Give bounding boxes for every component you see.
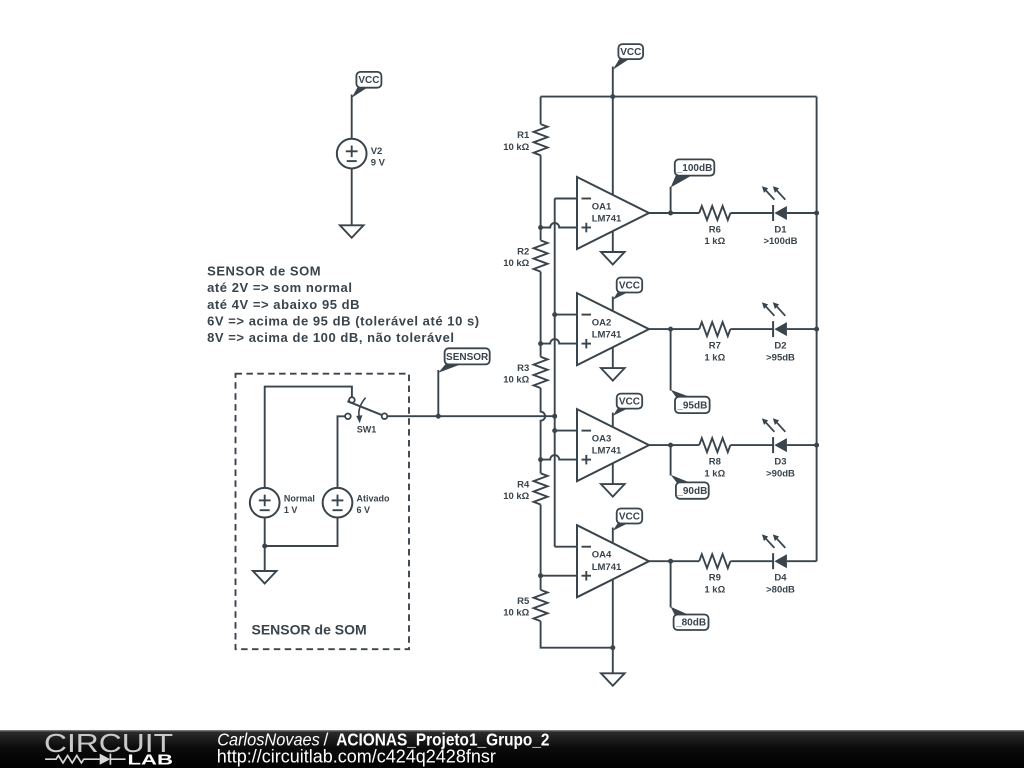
- footer url line: [217, 747, 496, 767]
- svg-text:R1: R1: [517, 130, 530, 141]
- wire D3 to bus: [787, 444, 817, 446]
- svg-text:R8: R8: [709, 457, 721, 468]
- svg-text:>90dB: >90dB: [766, 468, 795, 479]
- svg-text:VCC: VCC: [619, 397, 640, 408]
- svg-text:SENSOR de SOM: SENSOR de SOM: [252, 621, 367, 637]
- svg-text:1 kΩ: 1 kΩ: [704, 468, 725, 479]
- svg-text:10 kΩ: 10 kΩ: [503, 375, 529, 386]
- svg-text:D1: D1: [774, 225, 787, 236]
- LED D3 >90dB: [762, 418, 795, 479]
- svg-text:Ativado: Ativado: [357, 493, 391, 503]
- note text sensor description: [207, 264, 480, 345]
- resistor R8 1 k&#937;: [699, 438, 730, 479]
- wire ladder tap to OA2 non-inverting input: [541, 339, 577, 343]
- svg-text:http://circuitlab.com/c424q242: http://circuitlab.com/c424q2428fnsr: [217, 747, 496, 767]
- wire ladder tap to OA3 non-inverting input: [541, 455, 577, 459]
- junction at sources ground: [262, 544, 267, 549]
- voltage source Ativado 6V: [323, 488, 390, 518]
- junction ladder ground: [610, 645, 615, 650]
- svg-text:1 kΩ: 1 kΩ: [704, 352, 725, 363]
- wire junction to ground: [264, 546, 266, 571]
- ground below OA2: [601, 368, 625, 381]
- svg-text:6 V: 6 V: [357, 505, 371, 515]
- footer bar: [0, 730, 1024, 768]
- switch SW1: [345, 397, 387, 434]
- svg-text:_90dB: _90dB: [676, 486, 707, 497]
- svg-text:>95dB: >95dB: [766, 352, 795, 363]
- wire ladder segment 4: [540, 505, 542, 590]
- resistor R7 1 k&#937;: [699, 322, 730, 363]
- voltage source V2 9V: [337, 139, 386, 169]
- wire sensor line to OA2 inverting input: [555, 314, 577, 316]
- wire Ativado top to switch left throw: [338, 416, 346, 488]
- svg-text:LM741: LM741: [592, 562, 622, 573]
- svg-text:OA1: OA1: [592, 201, 612, 212]
- svg-text:SENSOR: SENSOR: [446, 352, 489, 363]
- svg-text:6V => acima de 95 dB (toleráve: 6V => acima de 95 dB (tolerável até 10 s…: [207, 313, 480, 328]
- svg-text:8V => acima de 100 dB, não tol: 8V => acima de 100 dB, não tolerável: [207, 330, 454, 345]
- power flag VCC at OA3: [613, 394, 642, 416]
- power flag VCC main: [613, 44, 643, 70]
- wire OA4 output: [649, 560, 699, 562]
- wire SENSOR flag to switch wire: [437, 370, 439, 416]
- wire Normal bottom to ground junction: [264, 518, 266, 547]
- wire ladder segment 3: [541, 388, 546, 473]
- svg-text:LM741: LM741: [592, 214, 622, 225]
- svg-text:R4: R4: [517, 479, 530, 490]
- net label _100dB: [671, 159, 715, 187]
- wire VCC rail into OA1: [612, 97, 614, 195]
- resistor R9 1 k&#937;: [699, 554, 730, 595]
- CircuitLab logo text CIRCUIT: [44, 728, 173, 758]
- junction SENSOR flag tap: [436, 414, 441, 419]
- wire R8 to D3: [730, 444, 773, 446]
- svg-text:1 V: 1 V: [284, 505, 298, 515]
- dashed enclosure SENSOR de SOM: [236, 374, 410, 650]
- wire OA2 output: [649, 328, 699, 330]
- junction top rail VCC: [610, 94, 615, 99]
- wire Ativado bottom to ground junction: [265, 518, 338, 547]
- wire V2 to ground: [351, 168, 353, 225]
- LED D2 >95dB: [762, 302, 795, 363]
- net label _80dB: [671, 607, 709, 630]
- wire D1 to bus: [787, 212, 817, 214]
- svg-text:até 2V => som normal: até 2V => som normal: [207, 280, 352, 295]
- wire VCC flag to OA4: [612, 528, 614, 544]
- junction ladder tap row 4: [538, 573, 543, 578]
- svg-text:10 kΩ: 10 kΩ: [503, 258, 529, 269]
- op-amp OA1 LM741: [577, 177, 649, 249]
- wire OA3 to ground: [612, 463, 614, 484]
- junction OA1 output: [668, 211, 673, 216]
- ground below V2: [340, 225, 364, 238]
- svg-text:10 kΩ: 10 kΩ: [503, 491, 529, 502]
- LED D1 >100dB: [762, 186, 798, 247]
- svg-text:>80dB: >80dB: [766, 584, 795, 595]
- svg-text:R6: R6: [709, 225, 721, 236]
- wire OA3 output to _90dB flag: [670, 445, 672, 475]
- wire OA1 output: [649, 212, 699, 214]
- svg-text:1 kΩ: 1 kΩ: [704, 584, 725, 595]
- LED D4 >80dB: [762, 534, 795, 595]
- footer title line: [217, 730, 550, 750]
- wire D4 to bus: [787, 560, 817, 562]
- svg-text:10 kΩ: 10 kΩ: [503, 608, 529, 619]
- wire OA1 to ground: [612, 231, 614, 252]
- svg-text:R5: R5: [517, 596, 530, 607]
- resistor R4 10 k&#937;: [503, 473, 547, 504]
- wire R7 to D2: [730, 328, 773, 330]
- wire ladder segment 1: [540, 155, 542, 240]
- wire OA3 output: [649, 444, 699, 446]
- junction OA4 output: [668, 559, 673, 564]
- ground below OA1: [601, 252, 625, 265]
- ground bottom: [601, 673, 625, 686]
- junction OA3 output: [668, 443, 673, 448]
- wire sensor line to OA1 inverting input: [555, 198, 577, 200]
- wire ladder tap to OA1 non-inverting input: [541, 223, 577, 228]
- voltage source Normal 1V: [250, 488, 315, 518]
- svg-text:R2: R2: [517, 246, 529, 257]
- svg-text:D3: D3: [774, 457, 786, 468]
- svg-text:R3: R3: [517, 363, 529, 374]
- svg-text:_95dB: _95dB: [676, 400, 707, 411]
- svg-text:Normal: Normal: [284, 493, 315, 503]
- svg-text:OA3: OA3: [592, 434, 612, 445]
- op-amp OA4 LM741: [577, 525, 649, 597]
- svg-text:1 kΩ: 1 kΩ: [704, 236, 725, 247]
- resistor R5 10 k&#937;: [503, 590, 547, 621]
- wire sensor distribution line: [554, 199, 556, 547]
- resistor R2 10 k&#937;: [503, 240, 547, 271]
- junction ladder tap row 3: [538, 457, 543, 462]
- power flag VCC at V2: [352, 72, 382, 98]
- svg-text:V2: V2: [371, 146, 383, 157]
- wire switch pole to sensor line: [387, 415, 554, 417]
- wire Normal top to switch upper throw: [265, 387, 352, 488]
- resistor R6 1 k&#937;: [699, 206, 730, 247]
- svg-text:_100dB: _100dB: [676, 163, 713, 174]
- wire ladder segment 2: [540, 272, 542, 357]
- wire ladder tap to OA4 non-inverting input: [541, 575, 577, 577]
- wire top rail: [541, 96, 817, 98]
- junction sensor wire to sensor line: [552, 414, 557, 419]
- junction bus row 1: [814, 211, 819, 216]
- wire OA2 output to _95dB flag: [670, 329, 672, 390]
- svg-text:VCC: VCC: [358, 75, 379, 86]
- wire D2 to bus: [787, 328, 817, 330]
- svg-text:VCC: VCC: [619, 280, 640, 291]
- resistor R3 10 k&#937;: [503, 357, 547, 388]
- net label _90dB: [671, 475, 709, 499]
- net label _95dB: [671, 390, 710, 413]
- CircuitLab logo mini resistor and diode: [45, 754, 126, 765]
- junction sensor line OA3: [552, 428, 557, 433]
- wire R9 to D4: [730, 560, 773, 562]
- wire to bottom ground: [612, 648, 614, 674]
- svg-text:9 V: 9 V: [371, 157, 386, 168]
- wire right bus: [816, 97, 818, 562]
- wire R6 to D1: [730, 212, 773, 214]
- CircuitLab logo text LAB: [128, 752, 174, 768]
- svg-text:LM741: LM741: [592, 446, 622, 457]
- svg-text:10 kΩ: 10 kΩ: [503, 142, 529, 153]
- wire OA4 to ladder ground junction: [612, 579, 614, 647]
- op-amp OA3 LM741: [577, 409, 649, 481]
- svg-text:OA4: OA4: [592, 550, 612, 561]
- svg-text:até 4V => abaixo 95 dB: até 4V => abaixo 95 dB: [207, 297, 360, 312]
- svg-text:R9: R9: [709, 573, 721, 584]
- power flag VCC at OA2: [613, 278, 642, 300]
- svg-text:VCC: VCC: [619, 511, 640, 522]
- junction bus row 2: [814, 327, 819, 332]
- op-amp OA2 LM741: [577, 293, 649, 365]
- junction ladder tap row 1: [538, 225, 543, 230]
- svg-text:SW1: SW1: [357, 424, 377, 434]
- wire OA2 to ground: [612, 347, 614, 368]
- wire OA4 output to _80dB flag: [670, 561, 672, 607]
- svg-text:D4: D4: [774, 573, 787, 584]
- svg-text:SENSOR de SOM: SENSOR de SOM: [207, 264, 321, 279]
- resistor R1 10 k&#937;: [503, 124, 547, 155]
- junction sensor line OA2: [552, 312, 557, 317]
- svg-text:OA2: OA2: [592, 318, 612, 329]
- junction ladder tap row 2: [538, 341, 543, 346]
- wire VCC flag to OA3: [612, 413, 614, 427]
- svg-text:VCC: VCC: [620, 47, 641, 58]
- svg-text:LAB: LAB: [128, 752, 174, 768]
- junction OA2 output: [668, 327, 673, 332]
- wire OA1 output to _100dB flag: [670, 187, 672, 213]
- ground below OA3: [601, 484, 625, 497]
- ground below sources: [253, 571, 277, 584]
- net label SENSOR: [438, 348, 489, 373]
- junction bus row 3: [814, 443, 819, 448]
- wire VCC to V2: [351, 95, 353, 139]
- wire VCC flag to OA2: [612, 297, 614, 312]
- svg-text:>100dB: >100dB: [763, 236, 797, 247]
- svg-text:LM741: LM741: [592, 330, 622, 341]
- wire ladder bottom to ground junction: [541, 621, 613, 648]
- svg-text:R7: R7: [709, 341, 721, 352]
- svg-text:D2: D2: [774, 341, 786, 352]
- power flag VCC at OA4: [613, 509, 642, 531]
- svg-text:_80dB: _80dB: [675, 618, 706, 629]
- wire sensor line to OA4 inverting input: [555, 546, 577, 548]
- wire ladder segment 0: [540, 97, 542, 125]
- wire VCC flag to top rail: [612, 67, 614, 97]
- wire sensor line to OA3 inverting input: [555, 430, 577, 432]
